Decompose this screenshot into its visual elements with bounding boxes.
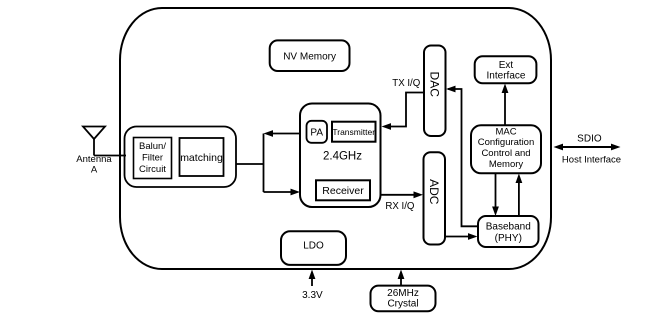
svg-text:Interface: Interface	[487, 71, 526, 82]
block DAC	[424, 46, 446, 137]
svg-text:PA: PA	[310, 128, 323, 139]
svg-text:A: A	[91, 165, 98, 176]
svg-text:Baseband: Baseband	[486, 222, 531, 233]
block NV Memory	[270, 40, 350, 71]
svg-text:Control and: Control and	[481, 148, 530, 159]
wire receiver to ADC (RX I/Q, arrow right)	[381, 191, 424, 198]
svg-text:Balun/: Balun/	[139, 141, 166, 152]
antenna A symbol	[83, 127, 105, 156]
chip outline (main SoC boundary)	[120, 8, 551, 269]
svg-text:matching: matching	[180, 152, 223, 164]
svg-text:LDO: LDO	[303, 241, 324, 252]
svg-text:TX I/Q: TX I/Q	[392, 78, 420, 89]
wire PA output to junction (arrow left)	[264, 130, 301, 137]
svg-text:(PHY): (PHY)	[495, 233, 522, 244]
svg-text:Antenna: Antenna	[76, 154, 112, 165]
block ADC	[424, 152, 446, 244]
block Balun/Filter Circuit	[134, 138, 172, 179]
svg-text:Transmitter: Transmitter	[332, 127, 375, 137]
wire 3.3V supply (arrow up into chip)	[309, 270, 316, 287]
wire ADC to baseband (arrow right)	[445, 233, 478, 240]
block Transmitter	[332, 122, 376, 142]
wire DAC to transmitter (TX I/Q, arrow left)	[382, 93, 425, 130]
svg-text:MAC: MAC	[495, 126, 516, 137]
svg-text:SDIO: SDIO	[577, 134, 602, 145]
wire baseband to DAC (arrow left into DAC)	[446, 86, 478, 227]
wire MAC to baseband (arrow down)	[492, 173, 499, 216]
wire RF junction vertical	[263, 134, 265, 193]
wire SDIO host interface (double arrow)	[554, 144, 621, 151]
svg-text:Host Interface: Host Interface	[562, 155, 621, 166]
wire junction to receiver input (arrow right)	[264, 189, 301, 196]
wire matching to RF junction	[236, 163, 264, 165]
block Ext Interface	[475, 56, 537, 83]
block LDO	[281, 231, 346, 265]
wire MAC to Ext Interface (arrow up)	[502, 84, 509, 126]
block MAC Configuration Control and Memory	[471, 125, 541, 173]
svg-text:Memory: Memory	[489, 159, 524, 170]
wire antenna to balun group	[94, 155, 126, 157]
svg-text:3.3V: 3.3V	[302, 290, 323, 301]
svg-text:26MHz: 26MHz	[387, 288, 419, 299]
block matching	[180, 138, 224, 176]
svg-text:Receiver: Receiver	[322, 185, 364, 197]
label Antenna A	[76, 154, 112, 176]
wire crystal to chip (arrow up)	[398, 270, 405, 286]
block Baseband (PHY)	[478, 216, 539, 247]
svg-text:NV Memory: NV Memory	[283, 52, 336, 63]
svg-text:DAC: DAC	[428, 72, 442, 98]
svg-text:ADC: ADC	[427, 179, 441, 205]
svg-text:Filter: Filter	[142, 153, 163, 164]
block Receiver	[316, 180, 370, 200]
block 26MHz Crystal	[371, 286, 436, 312]
block 2.4GHz radio	[300, 104, 381, 208]
svg-text:Configuration: Configuration	[478, 137, 535, 148]
svg-text:RX I/Q: RX I/Q	[385, 201, 415, 212]
block PA	[307, 121, 328, 143]
RF front-end group box	[125, 127, 237, 188]
svg-text:Ext: Ext	[499, 60, 514, 71]
svg-text:Circuit: Circuit	[139, 164, 166, 175]
svg-text:Crystal: Crystal	[387, 298, 418, 309]
svg-text:2.4GHz: 2.4GHz	[323, 151, 362, 163]
wire baseband to MAC (arrow up)	[516, 174, 523, 217]
